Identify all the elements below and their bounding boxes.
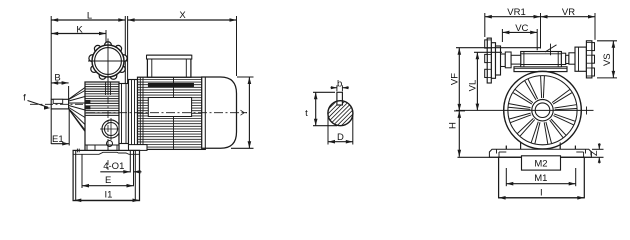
motor foot bbox=[129, 145, 148, 151]
right flange plate bbox=[575, 47, 586, 71]
dimension L bbox=[51, 19, 125, 21]
extension line VF top bbox=[456, 47, 540, 49]
gearbox ribs bbox=[85, 83, 119, 85]
right lobed handwheel bbox=[586, 41, 592, 78]
svg-text:4-O1: 4-O1 bbox=[103, 161, 124, 172]
left shaft spacer bbox=[501, 54, 506, 67]
gearbox boss verticals bbox=[105, 82, 107, 95]
base centerline bbox=[107, 160, 109, 170]
base foot ticks bbox=[76, 149, 78, 153]
flange vertical centerline bbox=[107, 39, 109, 83]
base inner verticals bbox=[75, 150, 77, 200]
svg-text:Y: Y bbox=[239, 109, 250, 116]
svg-text:VF: VF bbox=[450, 73, 461, 85]
left shaft collar bbox=[505, 52, 511, 68]
svg-text:Z: Z bbox=[589, 150, 599, 156]
input flange inner circle bbox=[95, 48, 122, 75]
left lobed handwheel bbox=[487, 38, 491, 83]
vent plug mark bbox=[550, 44, 552, 56]
svg-text:X: X bbox=[179, 10, 186, 21]
dimension Y bbox=[248, 77, 250, 148]
hub outer circle bbox=[532, 100, 553, 121]
shaft centerline bbox=[30, 103, 86, 105]
extension line X right / fan cowl face bbox=[236, 16, 238, 76]
fan spokes bbox=[543, 76, 544, 98]
motor frame bbox=[138, 77, 206, 149]
right shaft block bbox=[561, 53, 565, 64]
extension line E1 right bbox=[68, 110, 70, 146]
terminal box lid bbox=[147, 55, 192, 59]
motor frame seam bbox=[173, 77, 175, 149]
output shaft bbox=[51, 99, 68, 109]
nameplate bbox=[148, 98, 191, 117]
shaft section hatch bbox=[295, 96, 392, 130]
hub bore circle bbox=[535, 103, 550, 118]
dimension VR bbox=[541, 16, 596, 18]
svg-text:B: B bbox=[54, 73, 60, 84]
gearbox drain plug bbox=[107, 141, 113, 147]
extension line X left bbox=[127, 16, 129, 83]
terminal box bbox=[147, 55, 191, 77]
shaft key bbox=[53, 99, 63, 103]
dimension b bbox=[331, 87, 337, 89]
right shaft spacer bbox=[569, 53, 575, 64]
gearbox bottom legs bbox=[85, 144, 119, 146]
motor centerline bbox=[86, 112, 247, 114]
motor foot left (front) bbox=[505, 146, 507, 150]
svg-text:VR: VR bbox=[562, 7, 575, 18]
motor inner ring bbox=[508, 76, 577, 145]
svg-text:VL: VL bbox=[468, 80, 479, 92]
shaft section circle bbox=[328, 101, 353, 126]
motor fins bbox=[138, 79, 206, 81]
extension line Y top bbox=[237, 76, 254, 78]
dimension E1 bbox=[51, 143, 69, 145]
dimension M1 bbox=[506, 183, 575, 185]
flange bolt bottom bbox=[129, 136, 135, 143]
svg-text:b: b bbox=[337, 78, 342, 89]
input flange bolt bosses bbox=[105, 42, 112, 49]
extension lines b bbox=[336, 85, 338, 91]
svg-text:f: f bbox=[23, 93, 26, 104]
horizontal centerline bbox=[456, 109, 594, 111]
dimension VC bbox=[502, 31, 537, 33]
dimension VF bbox=[458, 48, 460, 111]
svg-text:I: I bbox=[540, 187, 543, 198]
extension lines M1 bbox=[505, 168, 507, 186]
gearbox side plug circle bbox=[102, 120, 120, 138]
dimension E bbox=[82, 185, 134, 187]
dimension K bbox=[51, 33, 106, 35]
extension line VC right bbox=[536, 29, 538, 50]
svg-text:VC: VC bbox=[515, 23, 528, 34]
extension line shaft end plane bbox=[50, 16, 52, 99]
dimension VL bbox=[476, 52, 478, 110]
plate end step left bbox=[499, 151, 506, 153]
extension line Y bottom bbox=[231, 147, 254, 149]
flange horizontal centerline bbox=[88, 60, 128, 62]
base top plate bbox=[489, 149, 591, 157]
svg-text:M1: M1 bbox=[534, 173, 547, 184]
keyway bbox=[337, 92, 343, 105]
svg-text:K: K bbox=[76, 24, 83, 35]
motor end shield bbox=[129, 80, 138, 149]
input flange outer circle bbox=[92, 45, 124, 77]
svg-text:M2: M2 bbox=[534, 158, 547, 169]
fan cowl bbox=[202, 77, 237, 148]
centerline tick at VF bbox=[454, 110, 465, 112]
extension line VR mid bbox=[540, 13, 542, 49]
terminal box pad bbox=[148, 83, 193, 86]
M2 slot plate bbox=[522, 156, 561, 170]
svg-text:L: L bbox=[87, 11, 92, 22]
dimension B bbox=[51, 82, 68, 84]
extension line VC left bbox=[501, 29, 503, 42]
cowl clamp line bbox=[204, 77, 206, 148]
motor foot right (front) bbox=[559, 142, 561, 149]
svg-text:VR1: VR1 bbox=[507, 7, 525, 18]
extension lines VS bbox=[597, 40, 617, 42]
svg-text:I1: I1 bbox=[105, 190, 113, 201]
base body bbox=[499, 157, 585, 198]
svg-text:D: D bbox=[337, 132, 344, 143]
extension line E left bbox=[81, 154, 83, 188]
dimension D bbox=[327, 116, 329, 145]
extension line B right bbox=[68, 86, 70, 99]
svg-text:VS: VS bbox=[602, 53, 613, 66]
base block bbox=[73, 150, 139, 200]
output bell cone bbox=[69, 88, 85, 100]
dimension Z bbox=[592, 148, 604, 150]
worm cylinder housing bbox=[521, 52, 562, 67]
svg-text:H: H bbox=[448, 122, 459, 129]
svg-text:t: t bbox=[305, 108, 308, 119]
dimension I1 bbox=[74, 199, 139, 201]
extension line VR right bbox=[594, 13, 596, 40]
flange bolt top bbox=[129, 83, 135, 90]
extension line VR1 left bbox=[484, 13, 486, 37]
left shaft bbox=[511, 55, 521, 64]
svg-text:E1: E1 bbox=[52, 134, 64, 145]
left flange plate inner bbox=[496, 46, 501, 75]
plate end step right bbox=[576, 151, 583, 153]
motor outer circle bbox=[504, 71, 582, 149]
dimension VR1 bbox=[485, 16, 541, 18]
right shaft bbox=[566, 55, 569, 63]
dimension X bbox=[128, 19, 237, 21]
base slot lines bbox=[129, 150, 131, 172]
extension line K right bbox=[105, 30, 107, 43]
base top profile bbox=[73, 152, 139, 154]
dimension I bbox=[499, 197, 585, 199]
gearbox vertical centerline bbox=[107, 83, 109, 160]
ground line bbox=[458, 156, 604, 158]
motor frame end rings bbox=[139, 77, 141, 149]
extension line L right bbox=[124, 16, 126, 83]
dimension VS bbox=[612, 41, 614, 78]
gearbox motor flange bbox=[119, 84, 129, 144]
dimension t bbox=[313, 91, 335, 93]
svg-text:E: E bbox=[105, 175, 111, 186]
dimension H bbox=[458, 111, 460, 157]
terminal box front face bbox=[514, 67, 567, 72]
centerline tick bbox=[586, 107, 588, 115]
motor feet front ticks bbox=[505, 146, 507, 150]
left flange plate outer bbox=[491, 43, 495, 79]
extension line VL top bbox=[474, 51, 502, 53]
gearbox left lugs bbox=[85, 100, 90, 103]
gearbox body bbox=[85, 82, 119, 151]
